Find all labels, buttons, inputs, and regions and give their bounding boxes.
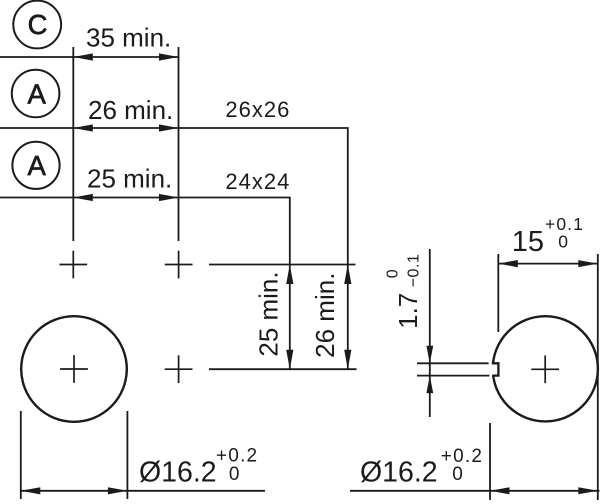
- cross top-right: [165, 251, 193, 279]
- cross second row right: [165, 355, 193, 383]
- 15 extension line right / right dia extension right: [597, 254, 599, 500]
- cross left hole center: [60, 355, 88, 383]
- svg-text:25 min.: 25 min.: [87, 164, 172, 194]
- keyway notch: [492, 363, 499, 375]
- left dia extension line left: [20, 411, 22, 499]
- circled letter C: [13, 1, 61, 49]
- left hole circle: [21, 316, 127, 422]
- arrowheads 25 min.: [73, 194, 93, 201]
- arrowheads dia left: [21, 487, 41, 494]
- svg-text:26 min.: 26 min.: [88, 95, 173, 125]
- row line 2 + 26x26 corner leader down: [0, 128, 348, 369]
- 15 dimension line: [498, 263, 598, 265]
- 15 extension line left: [497, 254, 499, 332]
- left dia dimension line: [21, 490, 265, 492]
- svg-text:26 min.: 26 min.: [310, 273, 340, 358]
- arrowheads vertical 25 min.: [286, 265, 293, 285]
- svg-text:C: C: [28, 9, 48, 40]
- svg-text:0: 0: [558, 232, 568, 252]
- svg-text:25 min.: 25 min.: [253, 271, 283, 356]
- row line 3 + 24x24 corner leader down: [0, 198, 290, 370]
- extension line B (x=178.5): [178, 47, 180, 241]
- circled letter A (row 3): [12, 142, 59, 189]
- svg-text:0: 0: [229, 464, 240, 485]
- svg-text:0: 0: [452, 464, 463, 485]
- right dia dimension line: [350, 490, 600, 492]
- svg-text:26x26: 26x26: [225, 97, 290, 122]
- svg-text:24x24: 24x24: [225, 169, 290, 194]
- circled letter A (row 2): [12, 70, 60, 118]
- keyway slot bottom line: [417, 375, 489, 377]
- right hole circle: [493, 316, 598, 421]
- arrowheads 26 min.: [73, 124, 93, 131]
- row line 1 / dimension line 35 min.: [0, 56, 179, 58]
- cross top-left: [59, 251, 87, 279]
- svg-text:35 min.: 35 min.: [86, 22, 171, 52]
- svg-text:1.7: 1.7: [393, 293, 423, 329]
- horizontal reference line top row: [209, 264, 356, 266]
- cross right hole center: [531, 355, 559, 383]
- extension line A (x=73.3): [72, 47, 74, 241]
- svg-text:−0.1: −0.1: [406, 254, 423, 288]
- arrowheads dia right: [490, 487, 510, 494]
- arrowheads vertical 26 min.: [344, 265, 351, 285]
- svg-text:0: 0: [385, 269, 402, 278]
- horizontal reference line bottom row: [209, 368, 357, 370]
- 1.7 dimension vertical line: [429, 249, 431, 417]
- right dia extension line left: [489, 423, 491, 500]
- keyway slot top line: [417, 362, 489, 364]
- svg-text:A: A: [28, 150, 47, 181]
- left dia extension line right: [126, 411, 128, 499]
- svg-text:A: A: [28, 79, 47, 110]
- svg-text:Ø16.2: Ø16.2: [360, 456, 438, 488]
- arrowheads 1.7: [426, 346, 433, 364]
- svg-text:Ø16.2: Ø16.2: [139, 456, 217, 488]
- notch arc eraser: [490, 363, 499, 376]
- svg-text:15: 15: [512, 226, 544, 258]
- arrowheads 15: [498, 260, 518, 267]
- arrowheads 35 min.: [73, 53, 93, 60]
